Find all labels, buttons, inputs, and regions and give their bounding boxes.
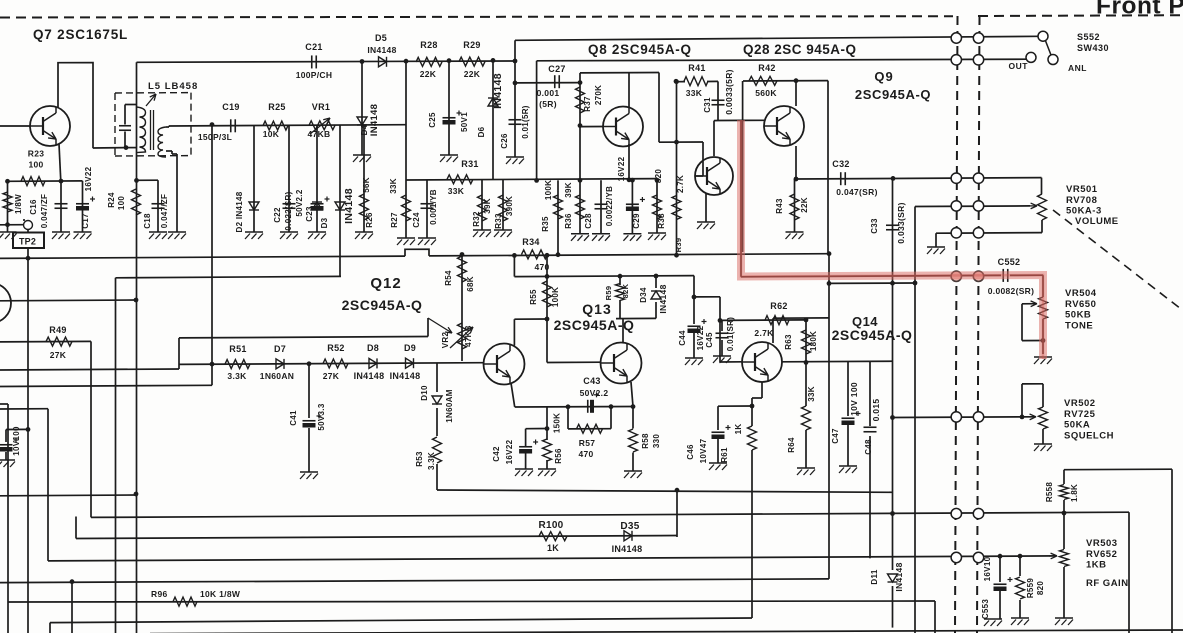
- svg-text:C27: C27: [548, 64, 565, 74]
- svg-text:R58: R58: [641, 433, 650, 449]
- svg-text:C25: C25: [428, 112, 437, 128]
- svg-text:50V2.2: 50V2.2: [580, 388, 609, 398]
- svg-text:R34: R34: [522, 237, 539, 247]
- svg-text:R24: R24: [107, 192, 116, 208]
- svg-text:R62: R62: [770, 301, 787, 311]
- svg-text:C16: C16: [29, 199, 38, 215]
- svg-text:D3: D3: [320, 217, 329, 228]
- svg-text:C19: C19: [222, 102, 239, 112]
- svg-text:56K: 56K: [362, 177, 371, 193]
- svg-text:R42: R42: [758, 63, 775, 73]
- svg-text:SW430: SW430: [1077, 43, 1109, 53]
- svg-text:VR504: VR504: [1065, 288, 1097, 299]
- svg-text:1KB: 1KB: [1086, 560, 1107, 571]
- svg-text:3.3K: 3.3K: [427, 452, 436, 470]
- svg-text:C46: C46: [686, 444, 695, 460]
- svg-text:2SC945A-Q: 2SC945A-Q: [554, 317, 635, 333]
- svg-text:16V22: 16V22: [505, 439, 514, 464]
- svg-text:D6: D6: [477, 126, 486, 137]
- svg-text:0.0082(SR): 0.0082(SR): [988, 286, 1034, 296]
- svg-text:D2 IN4148: D2 IN4148: [235, 191, 244, 232]
- svg-text:C28: C28: [584, 213, 593, 229]
- svg-text:R41: R41: [688, 63, 705, 73]
- svg-text:1K: 1K: [734, 424, 743, 435]
- svg-text:C48: C48: [864, 439, 873, 455]
- svg-text:39K: 39K: [564, 182, 573, 198]
- svg-text:0.022(SR): 0.022(SR): [284, 191, 293, 230]
- svg-text:R57: R57: [579, 438, 596, 448]
- svg-text:C24: C24: [412, 212, 421, 228]
- svg-text:R26: R26: [365, 212, 374, 228]
- svg-text:2.7K: 2.7K: [754, 328, 774, 338]
- svg-text:C26: C26: [500, 133, 509, 149]
- svg-text:D4: D4: [360, 124, 369, 135]
- svg-text:33K: 33K: [448, 186, 465, 196]
- svg-text:R36: R36: [564, 213, 573, 229]
- svg-text:C31: C31: [703, 97, 712, 113]
- svg-text:R63: R63: [784, 334, 793, 350]
- svg-text:C44: C44: [678, 330, 687, 346]
- svg-text:22K: 22K: [464, 69, 481, 79]
- svg-text:1N60AM: 1N60AM: [445, 389, 454, 422]
- svg-text:IN4148: IN4148: [658, 284, 668, 313]
- svg-text:(5R): (5R): [539, 99, 557, 109]
- svg-text:10V47: 10V47: [699, 438, 708, 463]
- svg-text:RF GAIN: RF GAIN: [1086, 578, 1129, 589]
- svg-text:0.0022/YB: 0.0022/YB: [605, 186, 614, 227]
- svg-text:47KB: 47KB: [308, 129, 331, 139]
- svg-text:C18: C18: [143, 213, 152, 229]
- svg-text:Q9: Q9: [874, 69, 893, 84]
- svg-text:R49: R49: [49, 325, 66, 335]
- svg-text:C32: C32: [832, 159, 849, 169]
- svg-text:150P/3L: 150P/3L: [198, 132, 232, 142]
- svg-text:50V2.2: 50V2.2: [295, 189, 304, 216]
- svg-text:3.3K: 3.3K: [227, 371, 247, 381]
- svg-text:R43: R43: [775, 198, 784, 214]
- svg-text:560K: 560K: [755, 88, 777, 98]
- svg-text:C45: C45: [705, 332, 714, 348]
- svg-text:0.047(SR): 0.047(SR): [836, 187, 877, 197]
- svg-text:Front PC: Front PC: [1096, 0, 1183, 20]
- svg-text:R31: R31: [461, 159, 478, 169]
- svg-text:180K: 180K: [809, 331, 818, 351]
- svg-text:S552: S552: [1077, 32, 1100, 42]
- svg-text:50KA-3: 50KA-3: [1066, 206, 1102, 217]
- svg-text:820: 820: [1036, 581, 1045, 595]
- svg-text:0.047/ZF: 0.047/ZF: [40, 194, 49, 228]
- svg-text:VR1: VR1: [312, 102, 330, 112]
- svg-text:0.015: 0.015: [871, 399, 881, 422]
- svg-text:150K: 150K: [553, 413, 562, 433]
- svg-text:10V 100: 10V 100: [849, 382, 859, 416]
- svg-text:C42: C42: [492, 446, 501, 462]
- svg-text:16V22: 16V22: [617, 156, 626, 181]
- svg-text:Q12: Q12: [370, 275, 401, 292]
- svg-text:50KA: 50KA: [1064, 420, 1090, 431]
- svg-text:RV652: RV652: [1086, 549, 1117, 560]
- svg-text:IN4148: IN4148: [390, 371, 421, 381]
- svg-text:2.7K: 2.7K: [676, 175, 685, 193]
- svg-text:39K: 39K: [483, 198, 492, 214]
- svg-text:68K: 68K: [466, 276, 475, 292]
- svg-text:R37: R37: [583, 96, 592, 112]
- svg-text:IN4148: IN4148: [367, 45, 396, 55]
- svg-text:L5 LB458: L5 LB458: [148, 81, 198, 92]
- svg-text:16V22: 16V22: [696, 325, 705, 350]
- svg-text:1.8K: 1.8K: [1070, 484, 1079, 502]
- svg-text:1K: 1K: [547, 543, 559, 553]
- svg-text:VR503: VR503: [1086, 538, 1118, 549]
- svg-text:IN4148: IN4148: [343, 188, 355, 224]
- svg-text:RV725: RV725: [1064, 409, 1096, 420]
- svg-text:33K: 33K: [807, 386, 816, 402]
- svg-text:ANL: ANL: [1068, 63, 1087, 73]
- svg-text:R38: R38: [657, 213, 666, 229]
- svg-text:IN4148: IN4148: [492, 73, 504, 109]
- svg-text:R39: R39: [674, 238, 683, 253]
- svg-text:R56: R56: [554, 448, 563, 464]
- svg-text:D11: D11: [870, 569, 879, 584]
- svg-text:R559: R559: [1026, 578, 1035, 599]
- svg-text:50V1: 50V1: [460, 112, 469, 132]
- svg-text:D35: D35: [620, 521, 639, 532]
- svg-text:R52: R52: [327, 343, 344, 353]
- svg-text:100K: 100K: [551, 287, 560, 307]
- svg-text:IN4148: IN4148: [612, 544, 643, 554]
- svg-text:D8: D8: [367, 343, 379, 353]
- svg-text:0.0033(5R): 0.0033(5R): [724, 69, 734, 115]
- svg-text:C21: C21: [305, 42, 322, 52]
- svg-text:0.047/ZF: 0.047/ZF: [160, 194, 169, 228]
- svg-text:100: 100: [117, 196, 126, 210]
- svg-text:VR502: VR502: [1064, 398, 1096, 409]
- svg-text:2SC945A-Q: 2SC945A-Q: [342, 297, 423, 313]
- svg-text:C47: C47: [831, 428, 840, 444]
- svg-text:10K 1/8W: 10K 1/8W: [200, 589, 241, 599]
- svg-text:C22: C22: [273, 207, 282, 223]
- svg-text:0.001: 0.001: [537, 88, 560, 98]
- svg-text:27K: 27K: [323, 371, 340, 381]
- svg-text:C553: C553: [981, 599, 990, 620]
- svg-text:10K: 10K: [263, 129, 280, 139]
- svg-text:R35: R35: [541, 216, 550, 232]
- svg-text:IN4148: IN4148: [894, 562, 904, 591]
- svg-text:R32: R32: [472, 211, 481, 227]
- svg-text:R25: R25: [268, 102, 285, 112]
- svg-text:Q8 2SC945A-Q: Q8 2SC945A-Q: [588, 42, 692, 57]
- svg-text:100P/CH: 100P/CH: [296, 70, 333, 80]
- svg-text:82K: 82K: [621, 283, 630, 298]
- svg-text:22K: 22K: [800, 197, 809, 213]
- svg-text:D9: D9: [404, 343, 416, 353]
- svg-text:C41: C41: [289, 410, 298, 426]
- svg-text:R23: R23: [28, 149, 45, 159]
- svg-text:C29: C29: [632, 213, 641, 229]
- svg-text:D34: D34: [639, 287, 648, 303]
- svg-text:R61: R61: [720, 447, 729, 463]
- svg-text:C33: C33: [870, 218, 879, 234]
- svg-text:R33: R33: [494, 213, 503, 229]
- svg-text:R96: R96: [151, 589, 168, 599]
- svg-text:IN4148: IN4148: [354, 371, 385, 381]
- svg-text:390K: 390K: [505, 196, 514, 216]
- svg-text:1N60AN: 1N60AN: [260, 371, 294, 381]
- svg-text:33K: 33K: [686, 88, 703, 98]
- svg-text:VR2: VR2: [441, 332, 450, 349]
- svg-text:50KB: 50KB: [1065, 310, 1091, 321]
- svg-text:IN4148: IN4148: [369, 104, 380, 136]
- svg-text:47KB: 47KB: [464, 325, 473, 347]
- svg-text:470: 470: [534, 262, 549, 272]
- svg-text:R51: R51: [229, 344, 246, 354]
- svg-text:10V100: 10V100: [12, 426, 21, 456]
- svg-text:Q7 2SC1675L: Q7 2SC1675L: [33, 27, 128, 42]
- svg-text:50V3.3: 50V3.3: [317, 403, 326, 430]
- svg-text:R53: R53: [415, 451, 424, 467]
- svg-text:OUT: OUT: [1009, 61, 1029, 71]
- svg-text:C43: C43: [583, 376, 600, 386]
- svg-text:0.01(5R): 0.01(5R): [521, 105, 530, 139]
- svg-text:Q28 2SC 945A-Q: Q28 2SC 945A-Q: [743, 42, 857, 57]
- svg-text:33K: 33K: [389, 178, 398, 194]
- svg-text:C23: C23: [305, 206, 314, 222]
- svg-text:R29: R29: [463, 40, 480, 50]
- svg-text:D7: D7: [274, 344, 286, 354]
- svg-text:0.01(SR): 0.01(SR): [726, 317, 735, 351]
- svg-text:100: 100: [28, 160, 43, 170]
- svg-text:RV708: RV708: [1066, 195, 1097, 206]
- svg-text:TONE: TONE: [1065, 320, 1093, 331]
- svg-text:27K: 27K: [50, 350, 67, 360]
- svg-text:C552: C552: [998, 257, 1021, 267]
- svg-text:R100: R100: [538, 520, 563, 531]
- svg-text:470: 470: [578, 449, 593, 459]
- svg-text:22K: 22K: [420, 69, 437, 79]
- svg-text:R55: R55: [529, 289, 538, 305]
- svg-text:D10: D10: [420, 385, 429, 401]
- svg-text:2SC945A-Q: 2SC945A-Q: [832, 327, 913, 343]
- svg-text:16V22: 16V22: [84, 166, 93, 191]
- svg-text:0.033(SR): 0.033(SR): [896, 202, 906, 243]
- svg-text:TP2: TP2: [19, 237, 36, 247]
- svg-text:R27: R27: [390, 212, 399, 228]
- svg-text:2SC945A-Q: 2SC945A-Q: [855, 87, 931, 102]
- svg-text:Q13: Q13: [582, 301, 611, 317]
- svg-text:820: 820: [654, 169, 663, 183]
- svg-text:R59: R59: [604, 286, 613, 301]
- svg-text:VR501: VR501: [1066, 184, 1098, 195]
- svg-text:R28: R28: [420, 40, 437, 50]
- svg-text:270K: 270K: [594, 85, 603, 105]
- svg-text:100K: 100K: [544, 180, 553, 200]
- svg-text:VOLUME: VOLUME: [1075, 216, 1119, 227]
- svg-text:330: 330: [652, 434, 661, 448]
- svg-text:0.001/YB: 0.001/YB: [429, 189, 438, 225]
- svg-text:R558: R558: [1045, 482, 1054, 503]
- svg-text:SQUELCH: SQUELCH: [1064, 430, 1114, 441]
- svg-text:C17: C17: [81, 213, 90, 229]
- svg-text:RV650: RV650: [1065, 299, 1096, 310]
- svg-text:1/8W: 1/8W: [14, 194, 23, 214]
- svg-text:D5: D5: [375, 33, 387, 43]
- svg-text:R64: R64: [787, 437, 796, 453]
- svg-text:16V10: 16V10: [983, 556, 992, 581]
- svg-text:R54: R54: [444, 270, 453, 286]
